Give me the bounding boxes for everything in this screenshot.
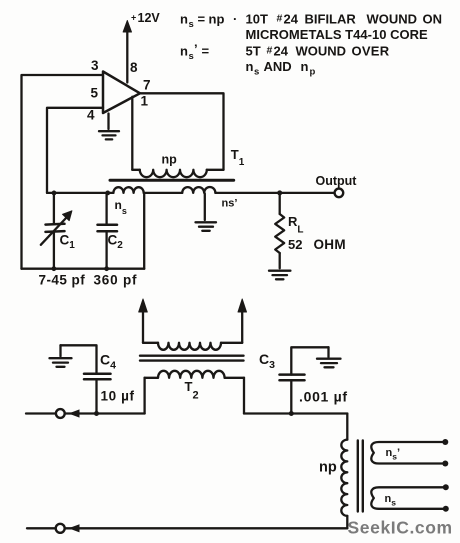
svg-text:7: 7 xyxy=(143,78,151,93)
input terminal (upper) xyxy=(26,409,145,418)
svg-text:n: n xyxy=(180,44,188,59)
svg-text:n: n xyxy=(246,59,254,74)
svg-text:OHM: OHM xyxy=(314,237,346,252)
note line 4 xyxy=(246,59,316,78)
bottom terminal wire xyxy=(27,524,347,533)
svg-text:s: s xyxy=(189,19,194,30)
transformer T1 primary winding np xyxy=(132,170,223,177)
svg-text:1: 1 xyxy=(141,94,149,109)
svg-text:4: 4 xyxy=(87,108,95,123)
svg-text:n: n xyxy=(301,59,309,74)
svg-text:24: 24 xyxy=(274,44,289,59)
wire pin5 (to ns bus) xyxy=(47,108,103,193)
wire pin7 output to T1 primary right xyxy=(140,93,224,170)
transformer T2 primary winding (bottom) xyxy=(145,371,244,414)
svg-text:360 pf: 360 pf xyxy=(94,273,138,288)
svg-text:SeekIC.com: SeekIC.com xyxy=(348,518,453,538)
node C1 bottom junction xyxy=(52,266,57,271)
transformer T1 core xyxy=(110,179,234,182)
output terminal xyxy=(335,189,344,198)
wire pin1 to T1 primary left xyxy=(131,97,133,170)
svg-text:WOUND: WOUND xyxy=(367,12,418,27)
svg-text:OVER: OVER xyxy=(352,44,390,59)
secondary winding ns' xyxy=(182,187,215,193)
wire ns bus middle segment xyxy=(144,192,183,194)
wire bottom bus of tank xyxy=(22,268,145,270)
svg-text:ON: ON xyxy=(423,12,443,27)
wire ns bus right segment to output xyxy=(215,192,334,194)
svg-text:ns’: ns’ xyxy=(222,198,238,210)
svg-text:ns: ns xyxy=(385,493,397,508)
secondary coil ns' with leads xyxy=(371,439,448,467)
svg-text:Output: Output xyxy=(316,174,358,188)
transformer T2 core xyxy=(140,356,244,361)
transformer T2 secondary winding (top) xyxy=(143,343,242,350)
svg-text:C1: C1 xyxy=(60,233,76,252)
svg-text:BIFILAR: BIFILAR xyxy=(305,12,357,27)
svg-text:24: 24 xyxy=(284,12,299,27)
wire tank right leg (bottom bus riser) xyxy=(143,193,145,269)
svg-text:T2: T2 xyxy=(185,379,199,402)
svg-text:=: = xyxy=(202,44,210,59)
svg-text:ns: ns xyxy=(115,198,127,216)
variable capacitor C1 xyxy=(41,193,72,269)
wire bottom bus to C3 and output transformer xyxy=(244,412,347,414)
svg-text:np: np xyxy=(209,12,225,27)
resistor RL xyxy=(275,193,284,268)
node C3 junction xyxy=(289,411,294,416)
svg-text:np: np xyxy=(162,153,178,167)
svg-text:RL: RL xyxy=(288,214,304,236)
svg-text:=: = xyxy=(198,12,206,27)
svg-text:#: # xyxy=(277,13,283,25)
node C4 junction xyxy=(94,411,99,416)
svg-text:·: · xyxy=(233,12,237,27)
secondary coil ns with leads xyxy=(371,484,448,512)
antenna arrow left xyxy=(139,299,148,343)
ground (RL) xyxy=(269,271,290,280)
svg-text:n: n xyxy=(180,12,188,27)
svg-text:10 µf: 10 µf xyxy=(101,389,135,404)
op-amp U1 xyxy=(103,72,140,114)
ground (C4) xyxy=(50,345,72,367)
svg-text:WOUND: WOUND xyxy=(296,44,347,59)
svg-text:’: ’ xyxy=(194,42,198,57)
node C2 top junction xyxy=(105,191,110,196)
svg-text:s: s xyxy=(189,51,194,62)
svg-text:#: # xyxy=(267,45,273,57)
svg-text:C3: C3 xyxy=(259,351,275,371)
svg-text:C2: C2 xyxy=(108,233,124,252)
capacitor C4 xyxy=(61,345,111,413)
svg-text:3: 3 xyxy=(91,58,99,73)
svg-text:.001 µf: .001 µf xyxy=(299,389,348,405)
wire ns bus left segment xyxy=(47,192,113,194)
secondary winding ns xyxy=(113,187,143,193)
antenna arrow right xyxy=(238,299,247,343)
svg-text:5T: 5T xyxy=(246,44,261,59)
capacitor C2 xyxy=(98,193,118,269)
+12V supply arrow on pin 8 xyxy=(123,21,131,83)
svg-text:52: 52 xyxy=(288,237,302,252)
svg-text:+: + xyxy=(131,13,136,23)
node RL tap junction xyxy=(277,190,282,195)
ground (ns' tap) xyxy=(196,194,217,231)
svg-text:ns’: ns’ xyxy=(386,447,401,462)
svg-text:s: s xyxy=(254,67,259,78)
node C1 top junction xyxy=(52,191,57,196)
svg-text:7-45 pf: 7-45 pf xyxy=(39,273,86,288)
note line 3 xyxy=(180,42,390,63)
wire pin3 (inverting input loop to bottom bus) xyxy=(22,75,104,269)
svg-text:p: p xyxy=(310,67,316,78)
svg-text:C4: C4 xyxy=(100,352,116,372)
ground (C3) xyxy=(317,347,341,367)
note line 1 xyxy=(180,12,442,31)
svg-text:T1: T1 xyxy=(231,147,245,168)
output transformer primary winding np (vertical) xyxy=(341,414,347,529)
svg-text:MICROMETALS T44-10 CORE: MICROMETALS T44-10 CORE xyxy=(246,27,429,42)
svg-text:8: 8 xyxy=(130,60,138,75)
svg-text:10T: 10T xyxy=(246,12,268,27)
svg-text:np: np xyxy=(319,460,337,476)
svg-text:5: 5 xyxy=(91,86,99,101)
svg-text:12V: 12V xyxy=(138,11,161,25)
output transformer core xyxy=(358,441,363,512)
node C2 bottom junction xyxy=(104,266,109,271)
ground (op-amp pin 4) xyxy=(99,114,119,140)
svg-text:AND: AND xyxy=(264,59,292,74)
capacitor C3 xyxy=(280,347,329,413)
